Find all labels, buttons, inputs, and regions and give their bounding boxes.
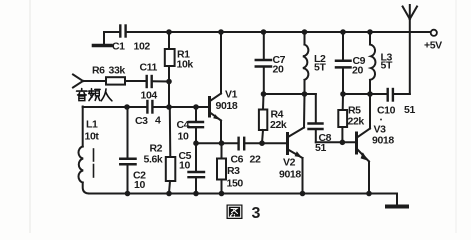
svg-text:10: 10 <box>179 160 190 172</box>
node: junction R3 bottom <box>219 191 225 197</box>
node: junction L3 top on rail <box>367 29 373 35</box>
scan speck below C10 <box>380 119 382 121</box>
terminal +5V <box>431 30 437 36</box>
antenna <box>403 5 417 94</box>
wire: ground bottom rail <box>89 194 397 207</box>
node: junction V3 emitter <box>366 191 372 197</box>
svg-text:104: 104 <box>141 90 158 102</box>
svg-text:10k: 10k <box>177 59 194 71</box>
transistor V3 <box>357 94 371 193</box>
node: junction C7/R4 <box>261 91 267 97</box>
svg-text:10t: 10t <box>85 131 100 143</box>
svg-text:10: 10 <box>134 179 145 191</box>
node: junction C2 bottom <box>125 191 131 197</box>
svg-text:5.6k: 5.6k <box>144 154 163 166</box>
svg-text:C10: C10 <box>377 105 396 117</box>
capacitor C6 <box>239 138 245 150</box>
svg-text:3: 3 <box>252 205 261 222</box>
transistor V1 <box>210 32 222 143</box>
svg-text:9018: 9018 <box>372 135 394 147</box>
svg-text:5T: 5T <box>381 60 393 72</box>
resistor R3 <box>217 143 226 193</box>
node: junction C4-C5 midpoint <box>193 140 199 146</box>
inductor L1 <box>78 107 89 194</box>
node: junction V1 emitter / R3 <box>219 140 225 146</box>
wire: V2 collector node line <box>264 94 316 123</box>
node: junction C9/R5 <box>340 91 346 97</box>
node: junction base bias <box>166 104 172 110</box>
svg-text:22: 22 <box>250 154 261 166</box>
svg-text:9018: 9018 <box>279 169 301 181</box>
wire: tank/base line <box>83 106 210 108</box>
svg-text:C11: C11 <box>140 62 158 74</box>
node: junction C2 top <box>124 104 130 110</box>
svg-text:C6: C6 <box>231 154 244 166</box>
wire: +5V top rail <box>127 31 431 33</box>
label 音频入 (audio input) <box>77 89 112 101</box>
resistor R2 <box>166 107 176 193</box>
inductor L3 <box>370 32 375 94</box>
svg-text:4: 4 <box>155 115 161 127</box>
ground symbol bottom right <box>387 205 407 209</box>
input arrow (audio in) <box>73 75 106 88</box>
svg-text:C1: C1 <box>112 41 125 53</box>
node: junction R5 bottom / V3 base <box>340 140 346 146</box>
inductor L1 core marks <box>93 149 95 177</box>
svg-text:10: 10 <box>178 131 189 143</box>
svg-text:5T: 5T <box>314 62 326 74</box>
node: junction C11 / R1-R2 <box>166 79 172 85</box>
svg-text:51: 51 <box>315 142 326 154</box>
capacitor C8 <box>309 124 323 143</box>
svg-text:22k: 22k <box>348 116 365 128</box>
node: junction L2 top on rail <box>302 29 308 35</box>
svg-text:L1: L1 <box>86 119 98 131</box>
capacitor C3 <box>147 101 152 113</box>
inductor L2 <box>303 32 309 94</box>
node: junction C4 top tap <box>193 104 199 110</box>
node: junction L2/V2 collector <box>302 91 308 97</box>
scan artifact faint right line <box>455 0 457 233</box>
wire: bias vertical R1-R2 <box>168 82 170 108</box>
ground at C1 <box>94 32 119 46</box>
resistor R5 <box>338 94 347 142</box>
node: junction R2 bottom <box>166 191 172 197</box>
capacitor C4 <box>189 107 203 143</box>
resistor R1 <box>165 32 175 82</box>
svg-text:V2: V2 <box>283 157 296 169</box>
node: junction C9 top on rail <box>340 29 346 35</box>
svg-text:33k: 33k <box>109 65 126 77</box>
resistor R6 <box>106 77 146 84</box>
transistor V2 <box>288 94 305 193</box>
svg-text:22k: 22k <box>270 119 287 131</box>
svg-text:C4: C4 <box>177 119 190 131</box>
scan artifact faint left line <box>29 0 31 233</box>
svg-text:+5V: +5V <box>424 40 442 52</box>
capacitor C1 <box>120 26 125 37</box>
wire: emitter line V1 to V2 base <box>196 142 288 144</box>
svg-text:V1: V1 <box>225 89 238 101</box>
svg-text:R3: R3 <box>227 165 240 177</box>
svg-text:150: 150 <box>227 178 244 190</box>
capacitor C5 <box>189 143 205 193</box>
node: junction V1 collector on rail <box>218 29 224 35</box>
capacitor C11 <box>147 76 169 87</box>
resistor R4 <box>259 94 267 143</box>
svg-text:9018: 9018 <box>216 100 238 112</box>
svg-text:51: 51 <box>404 104 415 116</box>
svg-text:20: 20 <box>273 64 284 76</box>
node: junction C7 top on rail <box>261 29 267 35</box>
caption 图 3 <box>227 205 243 220</box>
svg-text:20: 20 <box>352 65 363 77</box>
node: junction L3/V3 collector <box>367 91 373 97</box>
node: junction R1 top on rail <box>166 29 172 35</box>
node: junction R4 bottom <box>259 140 265 146</box>
wire: V3 collector node line <box>343 93 387 95</box>
capacitor C10 <box>388 89 410 101</box>
wire: V3 base line <box>316 141 357 143</box>
node: junction C5 bottom <box>193 191 199 197</box>
node: junction V2 emitter <box>300 191 306 197</box>
capacitor C9 <box>336 32 351 94</box>
capacitor C2 <box>120 107 135 193</box>
svg-text:C3: C3 <box>135 115 148 127</box>
capacitor C7 <box>256 32 271 94</box>
svg-text:102: 102 <box>134 41 151 53</box>
svg-text:R6: R6 <box>92 65 105 77</box>
